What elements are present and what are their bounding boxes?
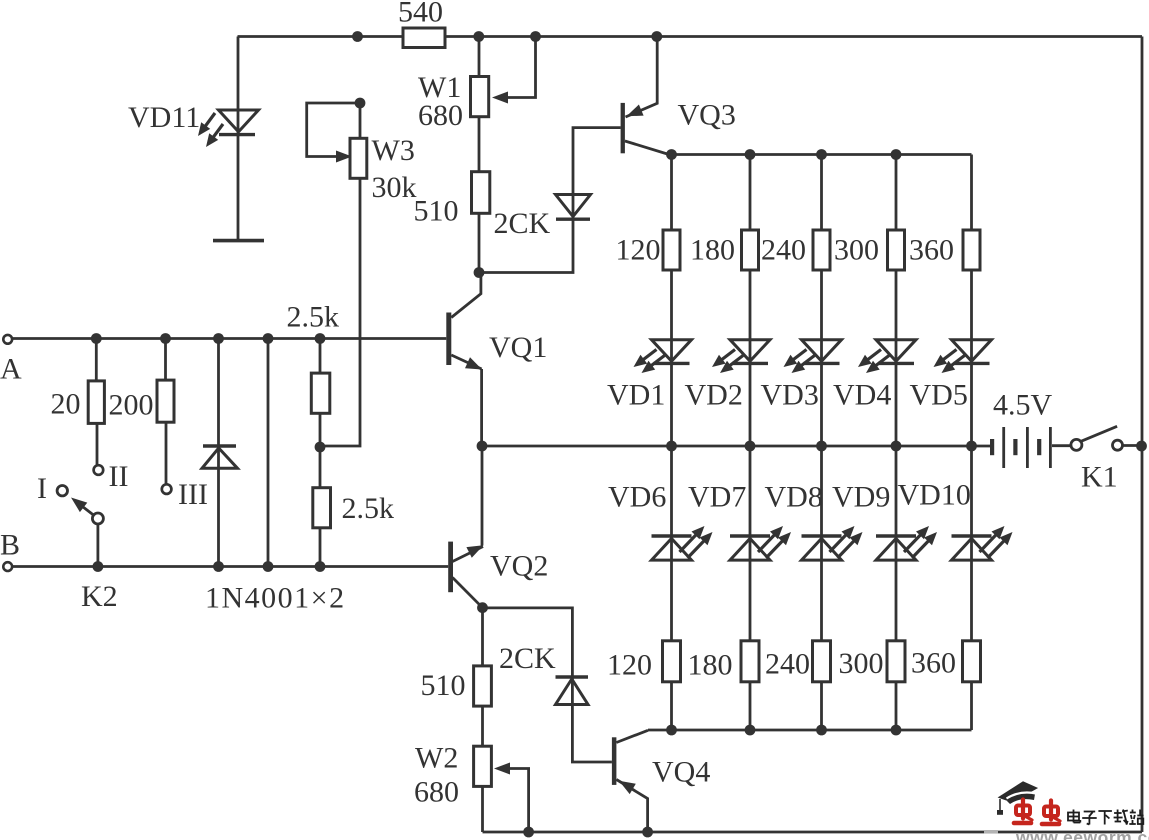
svg-text:II: II — [109, 460, 129, 493]
svg-text:300: 300 — [834, 234, 879, 267]
svg-text:VQ1: VQ1 — [489, 331, 547, 364]
svg-text:VD9: VD9 — [832, 481, 890, 514]
svg-text:20: 20 — [51, 388, 81, 421]
svg-text:W3: W3 — [372, 134, 415, 167]
svg-text:K1: K1 — [1081, 461, 1118, 494]
svg-text:2.5k: 2.5k — [287, 301, 340, 334]
svg-text:VD3: VD3 — [761, 379, 819, 412]
svg-text:680: 680 — [414, 776, 459, 809]
svg-text:180: 180 — [688, 649, 733, 682]
svg-text:VQ3: VQ3 — [678, 99, 736, 132]
svg-text:510: 510 — [421, 669, 466, 702]
svg-text:www.eeworm.com: www.eeworm.com — [1015, 828, 1149, 840]
svg-text:200: 200 — [109, 389, 154, 422]
svg-text:VD2: VD2 — [685, 379, 743, 412]
svg-text:510: 510 — [414, 195, 459, 228]
svg-text:III: III — [178, 478, 208, 511]
svg-text:300: 300 — [839, 647, 884, 680]
svg-text:240: 240 — [765, 648, 810, 681]
svg-text:680: 680 — [418, 99, 463, 132]
svg-text:VD10: VD10 — [898, 479, 971, 512]
svg-text:2CK: 2CK — [499, 642, 556, 675]
svg-text:360: 360 — [911, 647, 956, 680]
svg-text:B: B — [0, 529, 20, 562]
svg-text:VD4: VD4 — [833, 379, 891, 412]
svg-text:4.5V: 4.5V — [993, 389, 1053, 422]
svg-text:360: 360 — [909, 234, 954, 267]
svg-text:VD1: VD1 — [607, 379, 665, 412]
svg-text:180: 180 — [690, 234, 735, 267]
svg-text:240: 240 — [761, 234, 806, 267]
svg-text:2CK: 2CK — [494, 207, 551, 240]
svg-text:VD6: VD6 — [608, 481, 666, 514]
svg-text:VD8: VD8 — [765, 481, 823, 514]
svg-text:K2: K2 — [81, 580, 118, 613]
svg-text:30k: 30k — [372, 171, 417, 204]
svg-text:540: 540 — [398, 0, 443, 29]
svg-text:120: 120 — [607, 649, 652, 682]
svg-text:VD5: VD5 — [910, 379, 968, 412]
svg-text:120: 120 — [616, 234, 661, 267]
svg-text:1N4001×2: 1N4001×2 — [205, 582, 346, 615]
svg-text:VQ2: VQ2 — [490, 550, 548, 583]
svg-text:VD11: VD11 — [128, 101, 200, 134]
svg-text:I: I — [37, 472, 47, 505]
svg-text:A: A — [0, 353, 22, 386]
svg-text:VD7: VD7 — [688, 481, 746, 514]
svg-text:2.5k: 2.5k — [342, 492, 395, 525]
svg-text:W2: W2 — [415, 742, 458, 775]
svg-text:VQ4: VQ4 — [652, 756, 710, 789]
